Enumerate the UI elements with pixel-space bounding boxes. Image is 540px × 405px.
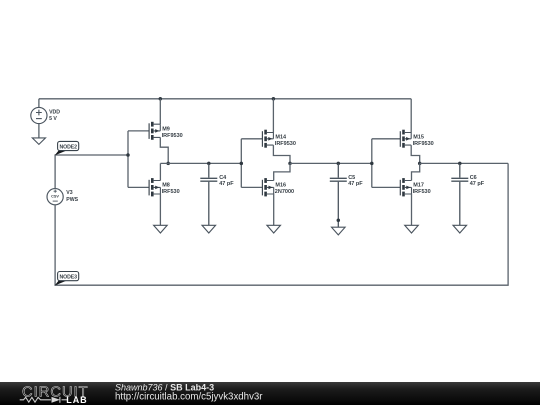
wire M15 drain jog — [411, 145, 420, 163]
svg-text:http://circuitlab.com/c5jyvk3x: http://circuitlab.com/c5jyvk3xdhv3r — [115, 391, 263, 402]
wire V3 top to NODE2 corner and to gate bus stage1 — [55, 155, 128, 188]
wire stage3 output line — [420, 162, 508, 164]
junction dot stage2 output / gate bus 3 — [370, 162, 374, 166]
svg-text:47 pF: 47 pF — [348, 181, 363, 187]
ground C6 — [453, 225, 467, 233]
transistor M15 (PMOS IRF9530) — [372, 130, 411, 148]
junction dot C4 top — [207, 162, 211, 166]
wire gate bus stage1 — [127, 131, 129, 188]
svg-text:IRF9530: IRF9530 — [275, 141, 296, 147]
wire M8 source to ground — [159, 194, 161, 225]
voltage source VDD — [31, 99, 47, 138]
CircuitLab logo resistor+diode — [20, 397, 67, 403]
wire M17 drain jog — [412, 163, 420, 180]
junction dot rail / M14 source — [272, 97, 276, 101]
wire gate bus stage2 — [240, 139, 242, 188]
ground M16 source — [267, 225, 281, 233]
wire M15 source from rail — [410, 99, 412, 133]
svg-text:VDD: VDD — [49, 109, 60, 115]
wire M17 source to ground — [411, 194, 413, 225]
svg-text:2N7000: 2N7000 — [275, 189, 294, 195]
svg-text:IRF530: IRF530 — [162, 189, 180, 195]
svg-text:M15: M15 — [413, 134, 424, 140]
capacitor C4 — [200, 163, 217, 225]
svg-text:LAB: LAB — [66, 395, 87, 405]
junction dot stage1 output — [166, 162, 170, 166]
junction dot above C5 ground — [337, 218, 341, 222]
wire stage2 output line — [290, 162, 372, 164]
wire M9 drain jog — [160, 137, 168, 163]
svg-text:CSV: CSV — [51, 195, 59, 199]
svg-text:M9: M9 — [162, 126, 170, 132]
wire M9 source from rail — [159, 99, 161, 124]
junction dot C6 top — [458, 162, 462, 166]
ground M17 source — [405, 225, 419, 233]
svg-text:M14: M14 — [275, 134, 287, 140]
wire stage1 output line — [160, 162, 241, 164]
junction dot NODE2 / gate bus — [126, 153, 130, 157]
svg-text:IRF9530: IRF9530 — [162, 133, 183, 139]
junction dot stage1 output / gate bus 2 — [240, 162, 244, 166]
svg-text:IRF9530: IRF9530 — [413, 141, 434, 147]
junction dot stage2 output — [288, 162, 292, 166]
wire M14 source from rail — [272, 99, 274, 133]
svg-text:NODE3: NODE3 — [60, 274, 78, 280]
wire M16 drain jog — [274, 163, 290, 180]
ground below VDD — [32, 138, 45, 145]
capacitor C5 — [330, 163, 347, 227]
svg-text:V3: V3 — [66, 190, 72, 196]
wire M8 drain — [159, 163, 161, 180]
transistor M9 (PMOS IRF9530) — [128, 122, 160, 140]
transistor M14 (PMOS IRF9530) — [241, 130, 273, 148]
wire M16 source to ground — [273, 194, 275, 225]
svg-text:PWS: PWS — [66, 197, 78, 203]
wire M14 drain jog — [273, 145, 290, 163]
transistor M8 (NMOS IRF530) — [128, 178, 160, 196]
ground C4 — [202, 225, 216, 233]
voltage source V3 — [47, 189, 63, 205]
junction dot stage3 output — [418, 162, 422, 166]
transistor M17 (NMOS IRF530) — [372, 178, 412, 196]
svg-text:5 V: 5 V — [49, 116, 57, 122]
capacitor C6 — [451, 163, 468, 225]
node NODE2 — [55, 141, 79, 155]
svg-text:47 pF: 47 pF — [219, 181, 234, 187]
svg-text:NODE2: NODE2 — [60, 144, 78, 150]
wire V3 bottom / NODE3 net / feedback loop — [55, 163, 508, 285]
svg-text:IRF530: IRF530 — [413, 189, 431, 195]
wire gate bus stage3 — [371, 139, 373, 188]
node NODE3 — [55, 272, 79, 286]
svg-text:M8: M8 — [162, 183, 170, 189]
svg-text:M17: M17 — [413, 183, 424, 189]
junction dot rail / M9 source — [159, 97, 163, 101]
wire VDD top rail — [39, 98, 411, 100]
transistor M16 (NMOS 2N7000) — [241, 178, 273, 196]
svg-text:M16: M16 — [275, 183, 286, 189]
svg-text:47 pF: 47 pF — [470, 181, 485, 187]
junction dot C5 top — [337, 162, 341, 166]
ground M8 source — [154, 225, 168, 233]
ground C5 — [332, 227, 346, 235]
